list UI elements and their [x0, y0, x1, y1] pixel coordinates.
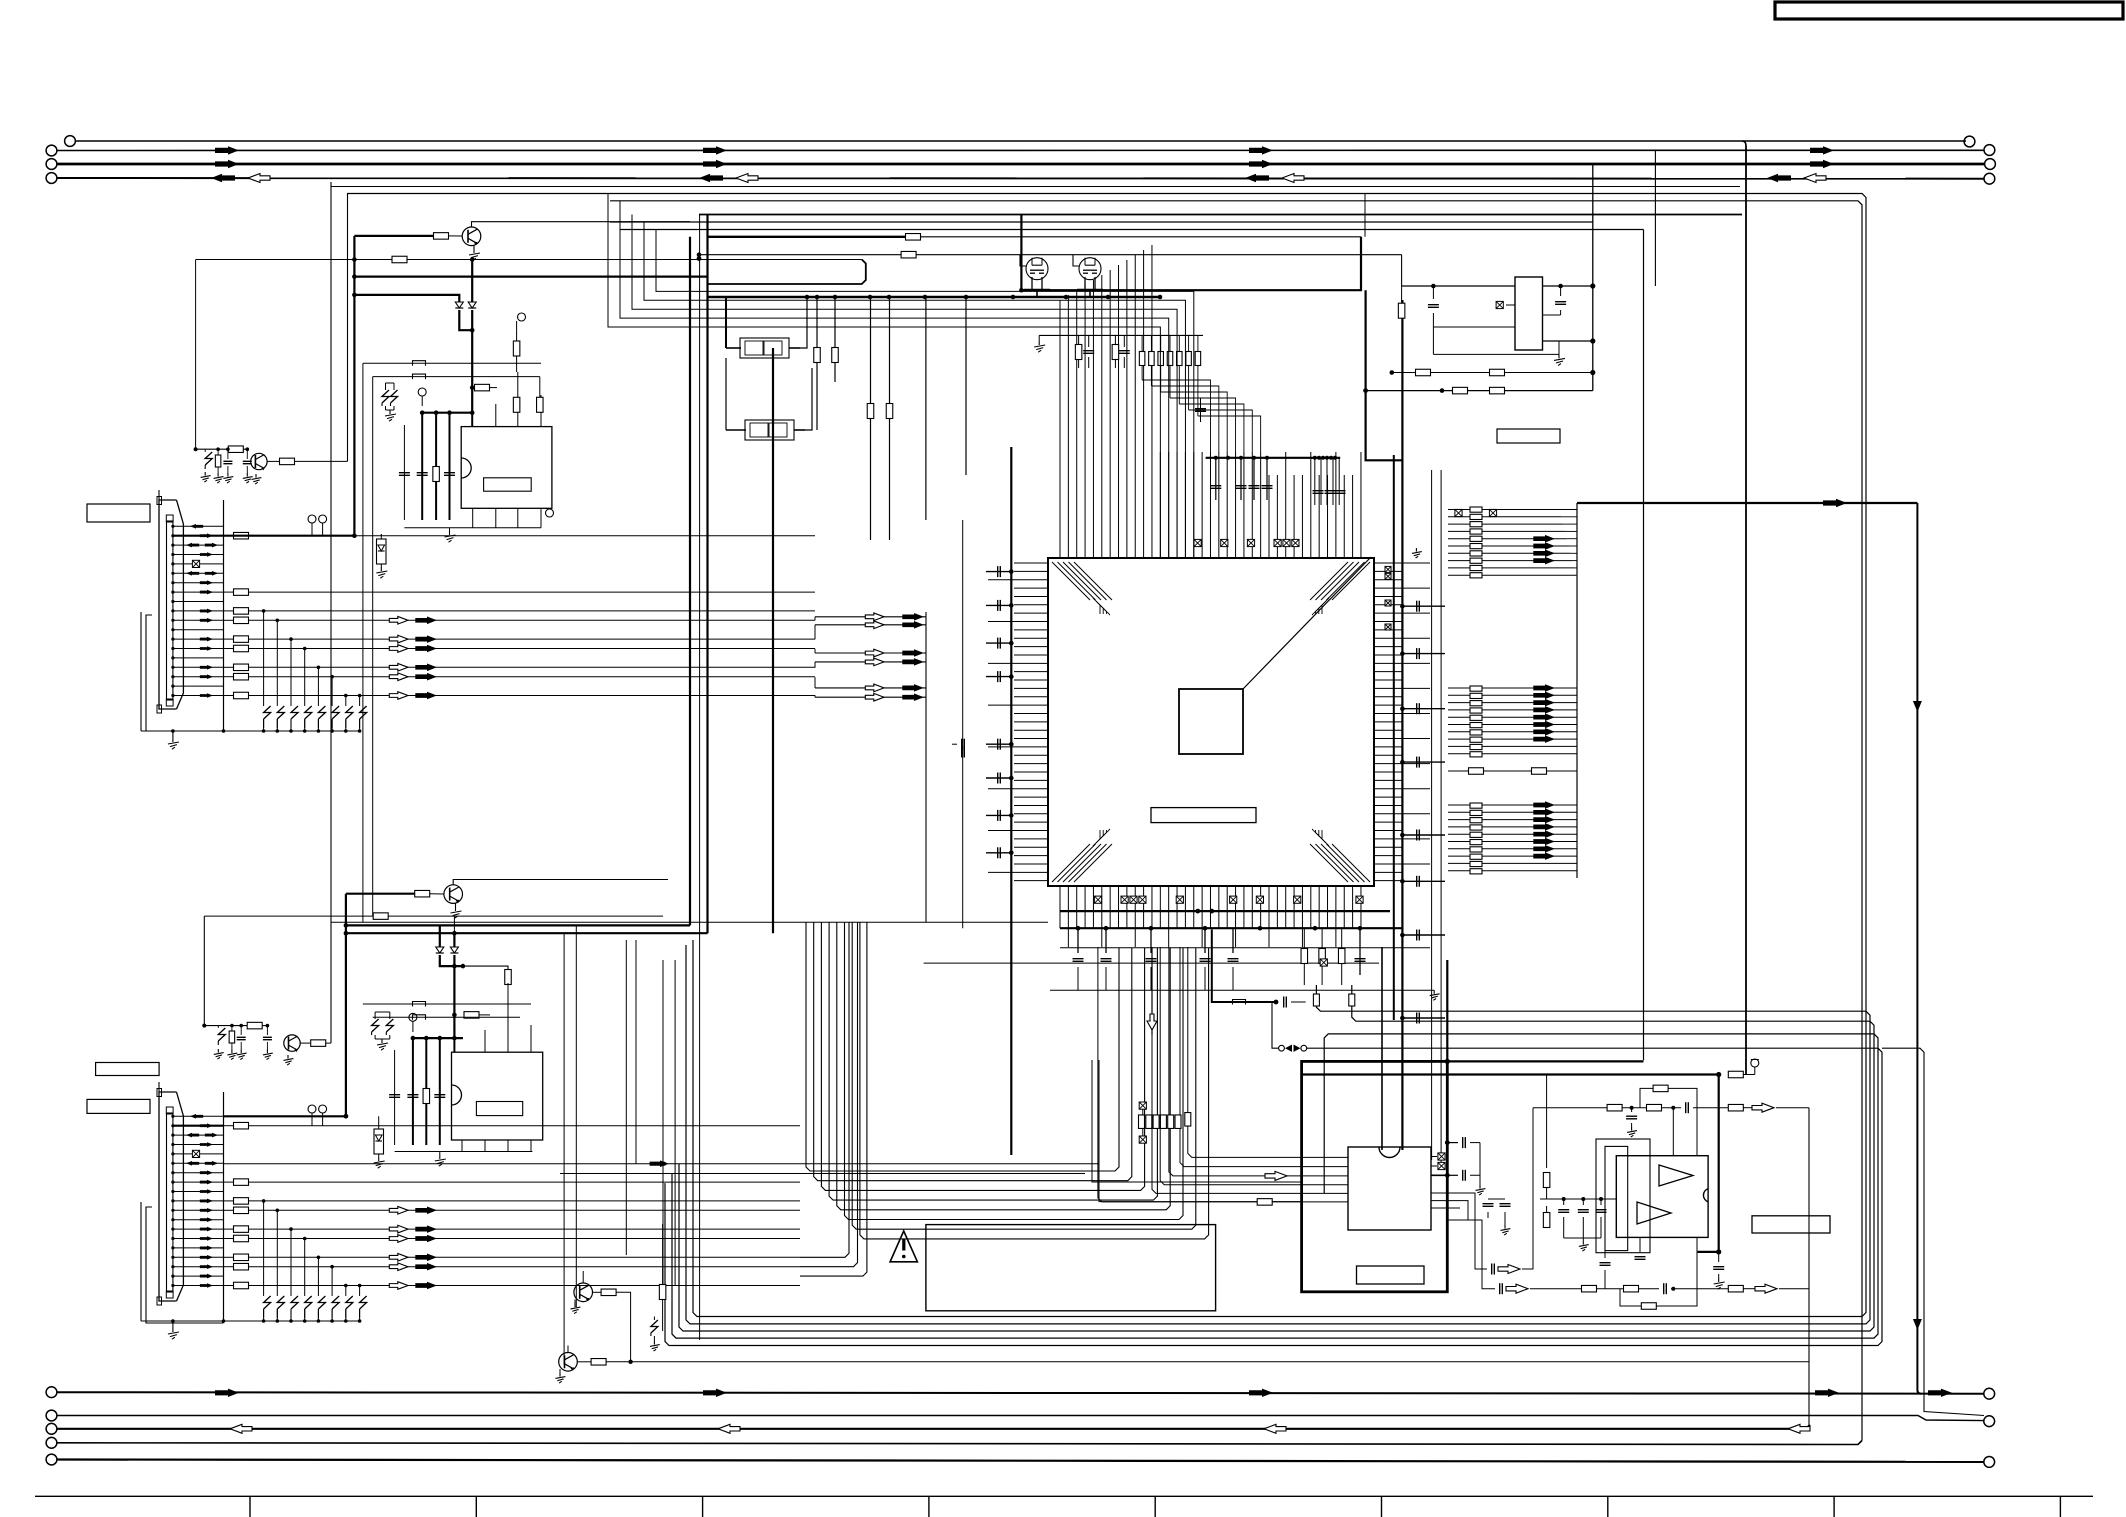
suppressor: [346, 706, 353, 719]
wire connector pin row: [173, 1134, 224, 1136]
wire pulldown: [276, 620, 278, 706]
power node: [1754, 1067, 1756, 1075]
wire vert x331: [330, 182, 332, 1043]
arrow bus4 left solid: [1245, 174, 1269, 182]
wire pulldown: [290, 639, 292, 706]
wire qfp left feed: [814, 677, 816, 688]
IC U1 left pins: [1014, 562, 1048, 564]
resistor Q20: [601, 1289, 616, 1296]
ladder1 collector: [1576, 503, 1578, 583]
resistor series: [234, 608, 249, 615]
test point: [308, 1105, 316, 1113]
ground clamp rail lower: [172, 1321, 174, 1328]
wire connector pin row: [173, 695, 224, 697]
arrow bus3 right: [703, 160, 727, 168]
arrow pair mid: [865, 658, 884, 666]
arrow pin left: [186, 1161, 199, 1166]
package U4: [740, 338, 789, 358]
wire connector pin row: [173, 1125, 224, 1127]
resistor row2 upper: [392, 256, 407, 263]
diode D2 upper: [468, 302, 476, 308]
contact jumper: [1279, 1045, 1285, 1051]
net thick rail 297: [708, 296, 1160, 298]
wire routing U: [852, 922, 1196, 1229]
wire connector pin row: [173, 1247, 224, 1249]
wire vert x1593: [1592, 164, 1594, 391]
arrow y1163: [650, 1160, 669, 1167]
capacitor bypass right: [1402, 653, 1445, 655]
wire channel top3: [699, 214, 1742, 216]
wire vert x663: [662, 960, 664, 1300]
resistor pkg2: [832, 348, 839, 363]
wire right loop1: [686, 945, 1870, 1324]
wire pulldown: [304, 1239, 306, 1297]
zener pack: [377, 539, 387, 564]
wire channel top4: [610, 221, 1593, 223]
IC U3 label: [476, 1102, 522, 1116]
arrow ladder3: [1533, 801, 1555, 809]
suppressor: [360, 1296, 367, 1309]
arrow ladder1: [1533, 550, 1555, 558]
wire routing U: [814, 922, 1132, 1180]
connector pin strip: [167, 1113, 173, 1292]
arrow ladder1: [1533, 535, 1555, 543]
wire qfp left feed: [814, 617, 816, 621]
wire row up C: [800, 922, 867, 1276]
input RC cluster lower: [204, 1025, 247, 1027]
suppressor pair upper: [382, 390, 389, 403]
wire routing U: [837, 922, 1170, 1210]
wire vert x362: [362, 363, 364, 922]
arrow pin right: [200, 1236, 213, 1241]
resistor ladder 3: [1470, 803, 1482, 808]
node top bus 3 left terminal: [46, 159, 57, 170]
wire connector pin row: [173, 629, 224, 631]
arrow down x1917 b: [1913, 1319, 1922, 1330]
wire connector pin row: [173, 685, 224, 687]
arrow pin right: [200, 1264, 213, 1269]
net opamp thick A: [1447, 1060, 1643, 1062]
footer tick: [1833, 1496, 1835, 1517]
wire connector pin row: [173, 666, 224, 668]
arrow pin right: [200, 1123, 213, 1128]
transistor Q input lower: [284, 1035, 300, 1051]
arrow busA right: [1928, 1389, 1952, 1397]
wire thin pair x1432: [1431, 470, 1433, 1160]
resistor row1288 b: [1624, 1285, 1639, 1292]
arrow U7 in: [1265, 1171, 1287, 1180]
wire connector pin row: [173, 1181, 224, 1183]
wire Q21 collector: [567, 1346, 569, 1353]
capacitor bypass left: [986, 852, 1011, 854]
node top bus 4 left terminal: [46, 173, 57, 184]
arrow pin right: [205, 1161, 218, 1166]
diode D2 lower: [450, 947, 458, 953]
wire jumper row1: [363, 362, 541, 364]
arrow pin right: [200, 1180, 213, 1185]
IC U1 QFP body: [1048, 558, 1374, 886]
IC U2 pins bottom: [472, 508, 474, 528]
footer tick: [475, 1496, 477, 1517]
arrow ladder3: [1533, 823, 1555, 831]
arrow pair out: [389, 673, 408, 681]
ground rail: [1038, 335, 1040, 341]
net gnd rail upper IC: [404, 527, 541, 529]
footer tick: [702, 1496, 704, 1517]
arrow busC left hollow: [718, 1424, 740, 1433]
arrow pair out: [389, 1235, 408, 1243]
resistors below qfp: [1303, 928, 1305, 948]
wire connector pin row: [173, 601, 224, 603]
wire connector pin row: [173, 1172, 224, 1174]
resistor offset: [1185, 1113, 1191, 1127]
arrow pin right: [200, 1217, 213, 1222]
arrow out1: [1498, 1265, 1520, 1274]
wire vert x690 thick: [689, 237, 691, 926]
resistor row1107 c: [1728, 1104, 1743, 1111]
ground opamp out: [1718, 1278, 1720, 1282]
wire pulldown: [331, 677, 333, 706]
wire connector pin row: [173, 1144, 224, 1146]
wire thick vert x354: [353, 236, 355, 536]
arrow pin right: [200, 1255, 213, 1260]
wire connector pin row: [173, 1285, 224, 1287]
resistor rail lower: [247, 1022, 262, 1029]
node bus E left terminal: [46, 1454, 57, 1465]
footer tick: [249, 1496, 251, 1517]
IC U7: [1348, 1147, 1431, 1230]
suppressor: [318, 706, 325, 719]
wire U7 feed resistor row: [1098, 947, 1348, 1202]
arrow bus4 left hollow: [1282, 174, 1304, 183]
IC U2 upper: [461, 427, 552, 509]
capacitor in lower2: [266, 1026, 268, 1035]
wire base upper: [354, 235, 433, 237]
wire vert x1742b: [1745, 1073, 1747, 1075]
resistor fb1: [1416, 369, 1431, 376]
node bus D left terminal: [46, 1437, 57, 1448]
IC U1 top pins: [1059, 300, 1061, 558]
resistor fb1b: [1490, 369, 1505, 376]
suppressor: [318, 1296, 325, 1309]
wire pulldown: [263, 611, 265, 706]
cap under opamp: [1639, 1237, 1641, 1252]
arrow pin left: [186, 571, 199, 576]
wire qfp sub rail 2: [924, 962, 1379, 964]
hollow down arrow mid: [1151, 947, 1153, 1035]
net vdd local upper: [422, 412, 472, 414]
wire base lower: [346, 893, 415, 895]
caps module right: [1445, 1140, 1450, 1145]
resistor series: [234, 645, 249, 652]
warning triangle: [890, 1231, 917, 1262]
footer tick: [2059, 1496, 2061, 1517]
wire pkg lower loop: [725, 358, 727, 430]
resistor loop2 feed: [1349, 994, 1355, 1006]
wire connector pin row: [173, 1115, 224, 1117]
suppressor: [305, 1296, 312, 1309]
resistor pkg1: [814, 348, 821, 363]
arrow pin right: [200, 1246, 213, 1251]
arrow pin right: [200, 1274, 213, 1279]
IC U1 label: [1151, 808, 1256, 823]
wire vert x1365 up: [1364, 194, 1366, 237]
wire thick row lower: [224, 1115, 346, 1117]
arrow pin right: [200, 1142, 213, 1147]
resistor series: [234, 1226, 249, 1233]
wire pulldown: [345, 1286, 347, 1297]
wire horiz y1163: [224, 1163, 1100, 1165]
ladder1 rows: [1482, 509, 1560, 511]
arrow bus3 right: [1810, 160, 1834, 168]
wire connector pin row: [173, 1238, 224, 1240]
resistor series: [234, 1207, 249, 1214]
capacitor in2: [246, 449, 248, 459]
arrow pair out: [389, 645, 408, 653]
resistor in lower: [231, 1026, 233, 1031]
wire channel top1: [347, 194, 1866, 1317]
wire jumper row1 lower: [363, 1003, 531, 1005]
arrow pin right: [200, 646, 213, 651]
test point top: [518, 313, 526, 321]
resistor series: [234, 1235, 249, 1242]
mosfet Q10: [1026, 258, 1048, 280]
wire connector pin row: [173, 1219, 224, 1221]
cap opamp out: [1718, 1252, 1720, 1262]
net top bus line 4: [58, 177, 1985, 180]
resistor series: [234, 1254, 249, 1261]
resistor row1107 a: [1607, 1104, 1622, 1111]
arrow busA right: [1249, 1389, 1273, 1397]
test point: [308, 515, 316, 523]
arrow pin right: [200, 533, 213, 538]
resistor row x7: [1141, 335, 1143, 351]
zener pack: [374, 1129, 384, 1154]
net clamp rail lower: [141, 1320, 360, 1322]
wire row 1288: [1530, 1288, 1583, 1290]
arrow pin right: [200, 1199, 213, 1204]
connector CN upper label: [87, 504, 150, 522]
capacitor pair mid: [961, 739, 963, 750]
footer tick: [1607, 1496, 1609, 1517]
arrow bus4 left hollow: [248, 174, 270, 183]
arrow pair mid: [865, 649, 884, 657]
node bus A left terminal: [46, 1387, 57, 1398]
arrow pin right: [200, 590, 213, 595]
capacitor bypass left: [986, 676, 1011, 678]
resistor stub upper: [475, 384, 490, 391]
wire vert x1655: [1654, 150, 1656, 286]
resistor series: [234, 664, 249, 671]
arrow busC left hollow: [230, 1424, 252, 1433]
IC U7 lower right pins: [1431, 1193, 1487, 1269]
connector housing: [159, 1092, 177, 1301]
net gnd rail lower IC: [395, 1151, 533, 1153]
wire xtal feed: [1381, 947, 1383, 1150]
wire thick diode upper: [354, 295, 459, 302]
arrow ladder2: [1533, 721, 1555, 729]
arrow ladder3: [1533, 830, 1555, 838]
package U5: [745, 420, 794, 440]
wire routing U: [806, 922, 1119, 1171]
resistor Q input: [267, 460, 279, 462]
arrow pin left: [186, 1133, 199, 1138]
cap reg out: [1560, 286, 1562, 296]
node top bus 4 right terminal: [1984, 173, 1995, 184]
terminator: [192, 1150, 199, 1157]
IC U1 die square: [1179, 689, 1243, 754]
capacitor bypass right: [1402, 605, 1445, 607]
ladder2 collector: [1576, 583, 1578, 761]
diode D1 upper: [455, 302, 463, 308]
wire reg out: [1543, 285, 1593, 287]
arrow bus4 left solid: [211, 174, 235, 182]
resistor series: [234, 1282, 249, 1289]
resistor stub lower2: [464, 1012, 479, 1019]
resistor row1288 c: [1728, 1285, 1743, 1292]
wire connector pin row: [173, 582, 224, 584]
capacitor in: [227, 449, 229, 459]
cap gnd row1107: [1631, 1108, 1633, 1112]
arrow bus4 left hollow: [1804, 174, 1826, 183]
capacitor bypass right: [1402, 708, 1445, 710]
footer tick: [1154, 1496, 1156, 1517]
resistor ladder horizontal: [1139, 1115, 1145, 1129]
note box: [926, 1225, 1216, 1311]
net top bus line 3: [58, 163, 1985, 166]
wire connector pin row: [173, 572, 224, 574]
wire routing U: [821, 922, 1144, 1190]
wire vert x195: [195, 260, 197, 450]
wire connector pin row: [173, 619, 224, 621]
mosfet Q11: [1079, 258, 1101, 280]
arrow out2: [1506, 1284, 1528, 1293]
wire pulldown: [263, 1201, 265, 1296]
IC U1 diagonal callout: [1243, 557, 1371, 689]
transistor Q upper: [462, 227, 481, 246]
node top bus 1 right terminal: [1964, 136, 1975, 147]
arrow out row1107: [1752, 1103, 1774, 1112]
arrow pin right: [200, 1189, 213, 1194]
ground Q21: [559, 1369, 561, 1373]
resistor base upper: [434, 233, 449, 240]
resistor feed: [1257, 1199, 1272, 1206]
footer divider line: [35, 1495, 2093, 1497]
net reg gnd: [1433, 353, 1559, 355]
suppressor: [332, 706, 339, 719]
arrow pair out: [389, 692, 408, 700]
wire vert x372: [372, 377, 374, 916]
wire connector pin row: [173, 535, 224, 537]
net bottom bus D: [58, 1441, 1863, 1445]
caps top cluster A: [1215, 458, 1217, 500]
suppressor: [360, 706, 367, 719]
wire channel top2: [610, 201, 1862, 1441]
arrow pin right: [200, 1227, 213, 1232]
IC U3 lower: [452, 1052, 543, 1140]
wire pulldown: [331, 1267, 333, 1296]
ground IC lower: [439, 1152, 441, 1156]
transistor Q lower: [444, 885, 463, 904]
node top bus 2 right terminal: [1984, 145, 1995, 156]
resistor series: [234, 1198, 249, 1205]
module frame thick: [1302, 1061, 1448, 1291]
wire connector pin row: [173, 1266, 224, 1268]
IC U8 opamp: [1616, 1156, 1708, 1238]
arrow pin left: [190, 524, 203, 529]
arrow pin right: [200, 1283, 213, 1288]
capacitor bypass left: [986, 814, 1011, 816]
wire vert x626: [625, 940, 627, 1255]
arrow ladder1: [1533, 557, 1555, 565]
wire connector pin row: [173, 544, 224, 546]
IC U2 pins top: [471, 413, 473, 427]
arrow ladder2: [1533, 692, 1555, 700]
wire vert x576: [575, 925, 577, 1307]
resistor series: [234, 1122, 249, 1129]
node bus B right terminal: [1984, 1416, 1995, 1427]
arrow ladder2: [1533, 735, 1555, 743]
wire qfp left feed: [814, 649, 816, 653]
connector CN lower label 2: [87, 1099, 150, 1113]
wire connector pin row: [173, 1228, 224, 1230]
resistor r237: [906, 234, 921, 241]
connector shield outline: [146, 615, 224, 731]
resistor fb2b: [1490, 387, 1505, 394]
IC U7 label: [1357, 1266, 1425, 1284]
net thick pair lower A: [346, 924, 690, 926]
wire pulldown: [317, 1257, 319, 1296]
wire vert x962: [962, 520, 964, 928]
opamp label: [1752, 1216, 1830, 1233]
terminators top: [1194, 539, 1201, 546]
transistor Q input upper: [251, 453, 267, 469]
arrow pin right: [200, 552, 213, 557]
node top bus 3 right terminal: [1985, 159, 1996, 170]
wire row up A: [800, 922, 849, 1257]
wire connector pin row: [173, 1162, 224, 1164]
arrow pair out: [389, 635, 408, 643]
arrow pair out: [389, 1253, 408, 1261]
wire row 1107: [1533, 1107, 1607, 1109]
net qfp bottom rail: [1060, 927, 1402, 929]
resistor Q input lower: [300, 1042, 310, 1044]
wire connector pin row: [173, 1275, 224, 1277]
arrow pair out: [389, 663, 408, 671]
ground suppressor: [389, 410, 391, 414]
wire connector pin row: [173, 591, 224, 593]
capacitor bypass left: [986, 571, 1011, 573]
wire qfp left feed: [814, 662, 816, 668]
test point lower: [409, 1013, 417, 1021]
wire pulldown: [304, 649, 306, 707]
ladder3 collector: [1576, 761, 1578, 878]
wire pulldown: [359, 696, 361, 707]
ground clamp rail upper: [172, 731, 174, 738]
wire reg tap: [1363, 388, 1368, 393]
net qfp right bypass rail: [1401, 300, 1403, 1150]
arrow pin right: [205, 571, 218, 576]
wire horiz y1173: [560, 1173, 1085, 1175]
footer tick: [1381, 1496, 1383, 1517]
ground Q lower: [455, 903, 457, 907]
wire Q21 line right: [606, 1361, 1809, 1363]
wire thick module right: [1446, 960, 1448, 1061]
wire row2 upper: [196, 259, 392, 261]
suppressor: [264, 706, 271, 719]
arrow pin right: [200, 665, 213, 670]
wire pkg upper loop: [725, 297, 727, 348]
